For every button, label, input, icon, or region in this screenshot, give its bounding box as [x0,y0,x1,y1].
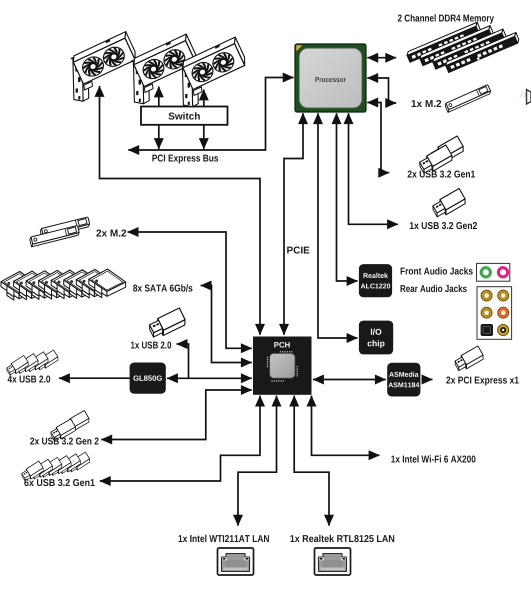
M.2 stick front [29,225,80,246]
processor U1 [295,44,366,112]
graphics card 2 [131,34,198,104]
wire Switch to GPU2 [158,87,160,107]
I/O chip [359,321,393,355]
USB plug 1x USB 3.2 Gen2 [430,189,467,220]
USB2 plug 4 [35,350,60,371]
wire GPU1 to PCH [100,86,261,335]
USB gen1 plug 4 [48,456,73,477]
Realtek ALC1220 audio codec [359,264,392,297]
wire 8x SATA to PCH [201,286,252,363]
USB gen1 plug 2 [29,459,54,480]
label 2x PCI Express x1 [446,377,519,386]
DDR4 stick 1 [406,22,482,62]
wire PCH to Intel WTI211AT LAN [238,396,277,526]
wire Processor to Realtek ALC1220 [337,113,358,281]
label 6x USB 3.2 Gen1 [24,479,95,486]
wire PCH to ASMedia ASM1184 [313,379,386,381]
M.2 stick back [40,217,91,238]
faint page artifact marks [520,91,527,98]
wire Switch to PCI Express Bus (right) [203,125,205,149]
wire PCI Express Bus to Processor [128,78,293,151]
ASMedia ASM1184 [387,363,420,397]
label 4x USB 2.0 [8,376,51,383]
label Front Audio Jacks [401,267,473,274]
wire PCH to Intel Wi-Fi 6 AX200 [312,396,380,456]
8x SATA drives [1,269,126,300]
page margin triangle marker [527,90,531,105]
USB2 plug 1 [5,355,30,376]
2x USB 3.2 Gen1 plugs (right) [417,136,465,176]
SATA drive 4 [39,270,76,299]
USB plug back [429,136,466,167]
DDR4 stick 4 [444,32,520,72]
wire Processor to 2x USB 3.2 Gen1 [367,103,389,173]
wire Processor to DDR4 memory [367,57,396,59]
wire 1x USB 2.0 branch [177,344,189,378]
SATA drive 3 [26,271,63,300]
SATA drive 1 [1,272,38,301]
GL850G USB hub [130,363,166,394]
SATA drive 5 [51,270,88,299]
wire 4x USB 2.0 to GL850G [59,377,130,379]
M.2 SSD (1x M.2) [444,85,491,113]
label PCI Express Bus [152,155,218,164]
label Rear Audio Jacks [401,285,467,292]
USB gen2 plug front [49,419,77,442]
USB gen2 plug back [63,411,91,434]
USB2 plug 3 [25,352,50,373]
wire GL850G to PCH [167,377,252,379]
label 1x Intel WTI211AT LAN [179,535,269,542]
label 2x USB 3.2 Gen1 [408,171,476,178]
USB2 plug 2 [15,354,40,375]
label 8x SATA 6Gb/s [133,284,192,291]
USB plug 1x USB 2.0 [147,308,187,340]
graphics card 1 [71,32,138,102]
rear audio jacks panel [477,287,512,340]
label 1x Realtek RTL8125 LAN [290,535,394,542]
wire Processor to 1x USB 3.2 Gen2 [349,113,399,224]
PCH chipset [253,337,312,395]
RJ45 port Intel LAN [218,548,254,575]
DDR4 memory modules [406,22,520,72]
USB gen1 plug 3 [39,457,64,478]
label PCIE [287,247,309,254]
label 1x USB 3.2 Gen2 [410,222,477,229]
USB gen1 plug 5 [57,454,82,475]
front audio jacks panel [477,263,510,281]
wire PCH to 6x USB 3.2 Gen1 [100,396,260,481]
SATA drive 6 [64,270,101,299]
wire 2x USB 3.2 Gen 2 to PCH [101,390,252,440]
USB gen1 plug 6 [67,452,92,473]
RJ45 port Realtek LAN [315,548,351,575]
SATA drive 8 [89,269,126,298]
label 1x M.2 [412,100,442,107]
wire 2x M.2 to PCH [128,232,252,348]
SATA drive 7 [76,269,113,298]
DDR4 stick 3 [432,29,508,69]
label 2x M.2 [96,230,126,237]
6x USB 3.2 Gen1 plugs [20,452,91,482]
2x M.2 SSDs [29,217,90,247]
wire Switch to GPU3 [203,90,205,107]
wire Processor to 1x M.2 [367,78,396,103]
wire Processor to PCH (PCIE) [284,113,303,335]
4x USB 2.0 plugs [5,350,59,377]
label 2 Channel DDR4 Memory [398,14,494,23]
wire Processor to I/O chip [318,113,358,338]
USB gen1 plug 1 [20,461,45,482]
2x USB 3.2 Gen 2 plugs [49,411,90,443]
graphics card 3 [180,37,247,107]
label 1x Intel Wi-Fi 6 AX200 [391,455,475,462]
label 1x USB 2.0 [131,342,171,349]
DDR4 stick 2 [419,26,495,66]
USB plug 2x PCI Express x1 [453,346,485,373]
SATA drive 2 [14,271,51,300]
wire Switch to PCI Express Bus (left) [158,125,160,149]
wire ASMedia to 2x PCI Express x1 [422,379,433,381]
wire PCH to Realtek RTL8125 LAN [294,396,329,526]
Switch box [141,107,228,125]
USB plug front [417,145,454,176]
label 2x USB 3.2 Gen 2 [30,438,98,445]
